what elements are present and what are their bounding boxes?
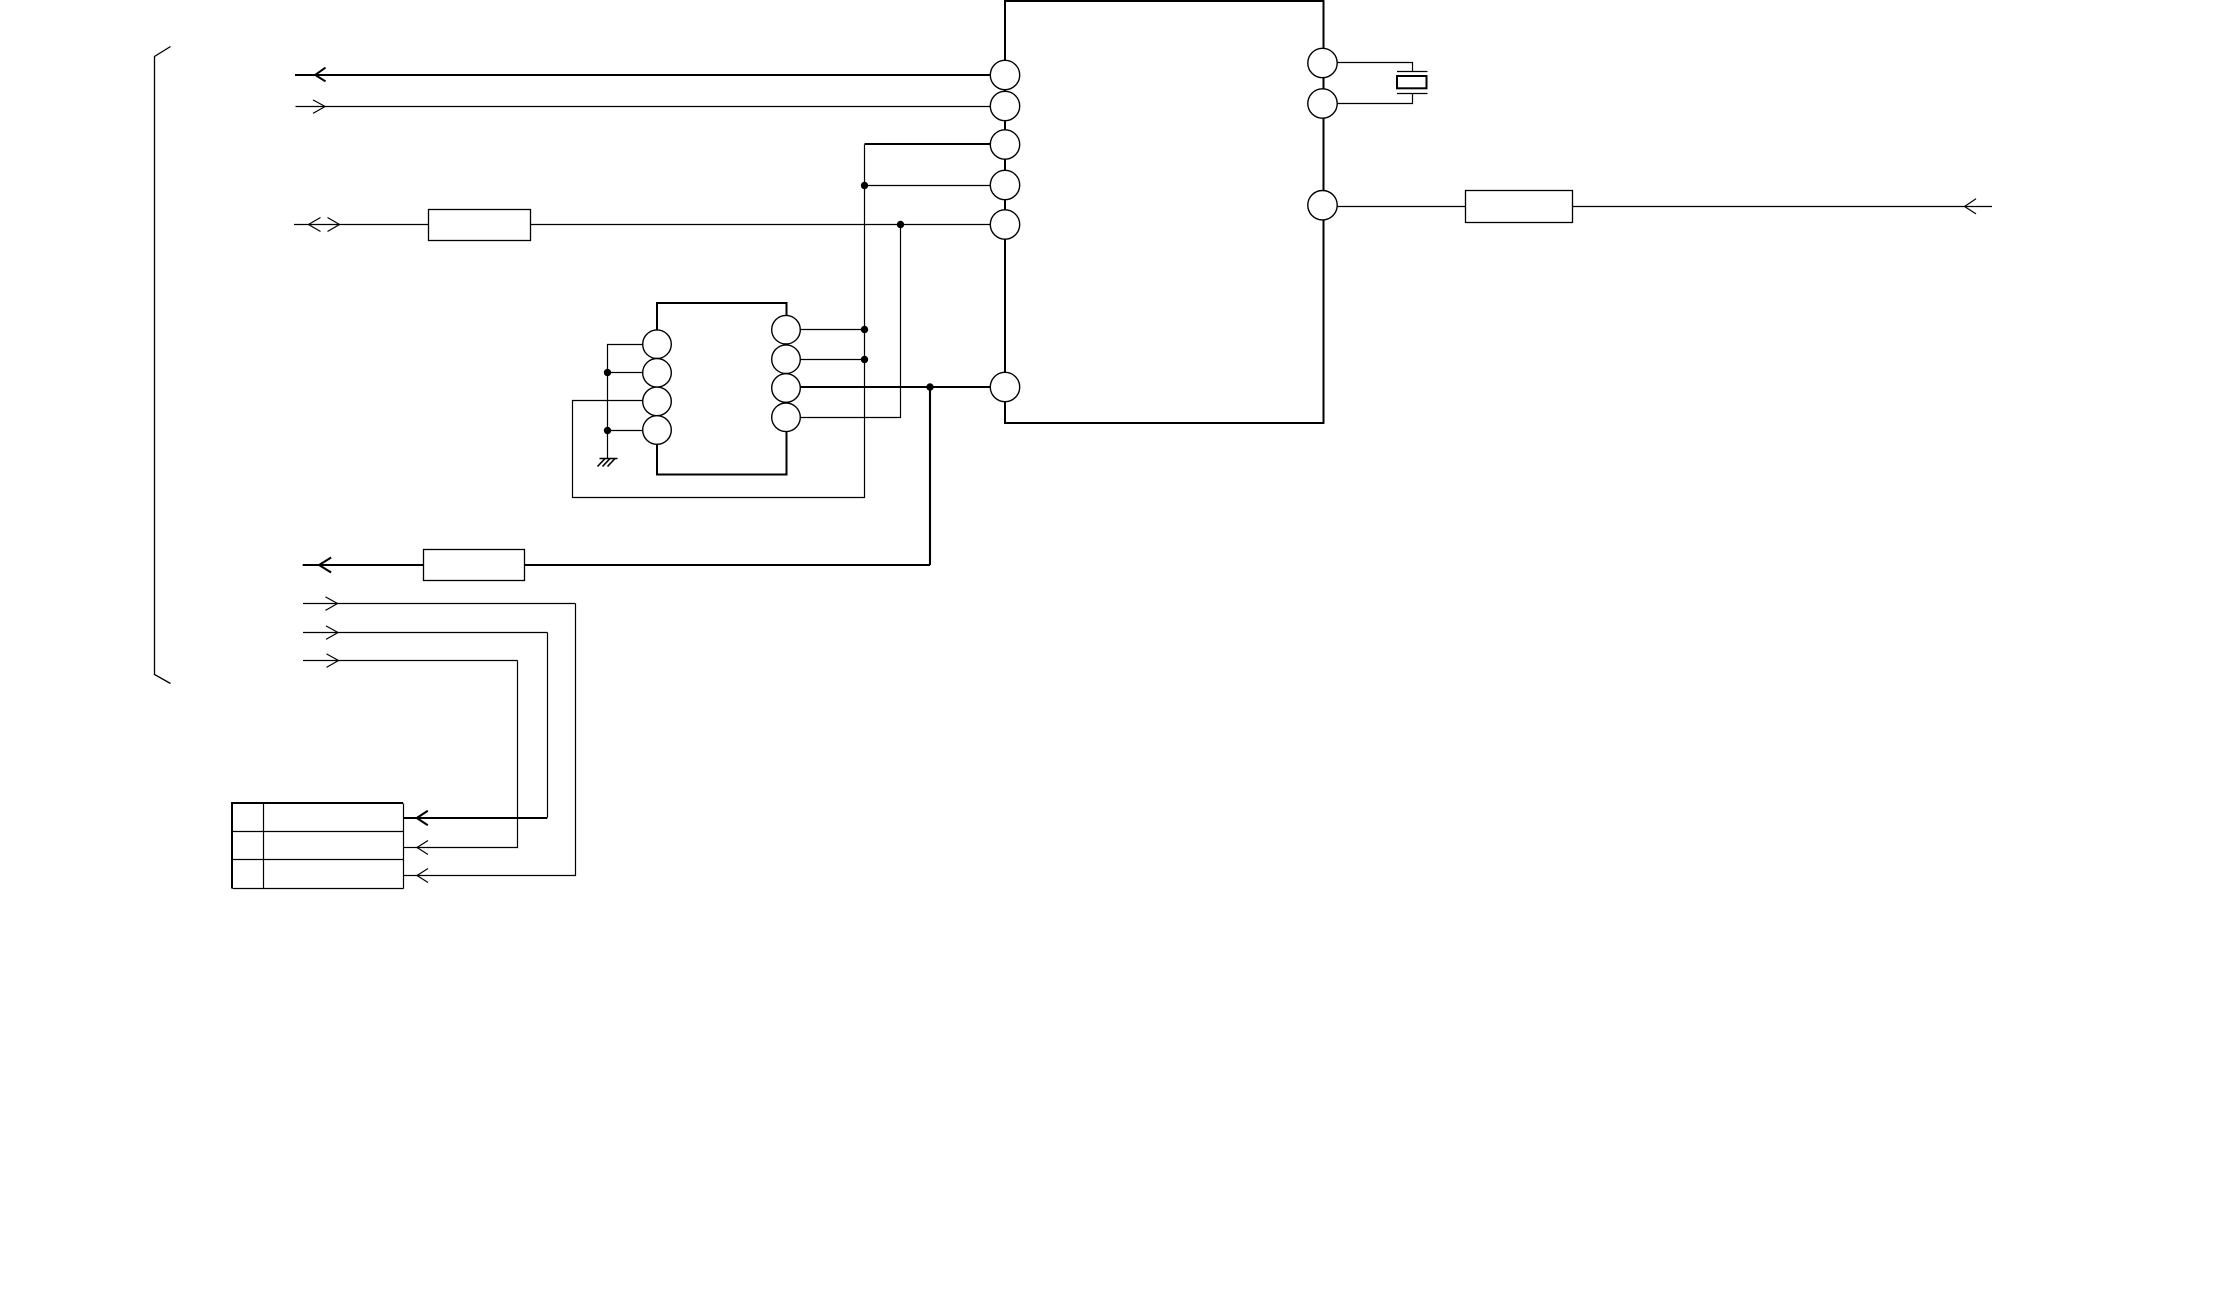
wire: U1 pin 3 bus vertical + loop to U2 pin 3 bbox=[573, 145, 865, 498]
wire: U1 pin 3 thick stub bbox=[865, 143, 991, 145]
wire: net to U1 pin 2 (arrow in, right-pointing) bbox=[296, 100, 991, 114]
ic U1 pin 4 bbox=[990, 170, 1019, 199]
resistor R2 bbox=[424, 550, 525, 581]
ic U1 pin 22 (right) bbox=[1308, 191, 1337, 220]
wire: thick net through resistor R2 (arrow out left) bbox=[303, 558, 930, 573]
ic U2 pin 8 (right top) bbox=[772, 315, 801, 344]
wire: U2 pin 8 to pin-3 bus bbox=[801, 329, 865, 331]
resistor R1 bbox=[429, 210, 531, 241]
bus bracket (left brace) bbox=[155, 47, 171, 684]
wire: U2 pin 1 to ground rail bbox=[608, 345, 644, 459]
ic U1 pin 1 (left) bbox=[990, 60, 1019, 89]
junction bus / U2 pin 7 bbox=[861, 356, 868, 363]
wire: U1 right pin net through resistor R3 (arrow in from right) bbox=[1338, 199, 1993, 214]
ic U2 pin 4 bbox=[643, 416, 672, 445]
junction on pin-5 wire to U2 pin 5 vertical bbox=[897, 221, 904, 228]
wire: U2 pin 7 to pin-3 bus bbox=[801, 359, 865, 361]
ic U1 pin 2 bbox=[990, 91, 1019, 120]
ic U1 pin 24 (right, XTAL1) bbox=[1308, 48, 1337, 77]
junction on thick bus bbox=[926, 383, 933, 390]
ic U2 pin 2 bbox=[643, 359, 672, 388]
ic U1 (main) body bbox=[1005, 1, 1324, 423]
wire: input net 1 (arrow right) to connector row 3 bbox=[303, 597, 576, 883]
connector J1 left edge (thick) bbox=[231, 802, 233, 889]
wire: U2 pin 2 to ground rail bbox=[608, 372, 644, 374]
wire: input net 2 (arrow right) down to connector row 1 bbox=[303, 626, 548, 818]
wire: U2 pin 4 to ground rail bbox=[608, 430, 644, 432]
wire: U1 pin 4 stub bbox=[865, 185, 991, 187]
junction ground rail / U2 pin 2 bbox=[604, 369, 611, 376]
ic U1 pin 5 bbox=[990, 210, 1019, 239]
wire: vertical from pin-5 net down to U2 pin 5 bbox=[801, 225, 901, 418]
junction bus / U2 pin 8 bbox=[861, 326, 868, 333]
ground (chassis) bbox=[598, 459, 618, 467]
ic U2 pin 7 bbox=[772, 345, 801, 374]
ic U2 pin 1 (left top) bbox=[643, 330, 672, 359]
ic U2 pin 5 bbox=[772, 403, 801, 432]
junction on pin-3 bus at pin-4 wire bbox=[861, 182, 868, 189]
wire: net to U1 pin 1 (thick, arrow out left) bbox=[295, 68, 990, 82]
ic U1 pin 23 (right, XTAL2) bbox=[1308, 89, 1337, 118]
wire: XTAL2 lead bbox=[1338, 94, 1413, 104]
wire: XTAL1 lead bbox=[1338, 63, 1413, 72]
resistor R3 bbox=[1466, 191, 1573, 223]
ic U1 pin 3 bbox=[990, 130, 1019, 159]
wire: thick vertical from bus junction down to R2 line bbox=[929, 387, 931, 565]
ic U1 pin 6 bbox=[990, 372, 1019, 401]
ic U2 (8-pin) body bbox=[657, 303, 787, 475]
junction ground rail / U2 pin 4 bbox=[604, 427, 611, 434]
crystal X1 body bbox=[1397, 76, 1427, 88]
connector J1 top edge (thick) bbox=[231, 802, 403, 804]
wire: input net 3 (arrow right) to connector row 2 bbox=[303, 654, 518, 855]
wire: connector row 1 thick lead (arrow into J1) bbox=[403, 811, 547, 825]
ic U2 pin 3 bbox=[643, 387, 672, 416]
ic U2 pin 6 bbox=[772, 374, 801, 403]
wire: thick bus U2 pin 6 to U1 pin 6 bbox=[800, 386, 990, 388]
connector J1 thin edges and dividers bbox=[233, 804, 404, 889]
crystal X1 plates bbox=[1397, 72, 1428, 94]
wire: bidirectional net through resistor R1 to U1 pin 5 bbox=[294, 218, 991, 232]
